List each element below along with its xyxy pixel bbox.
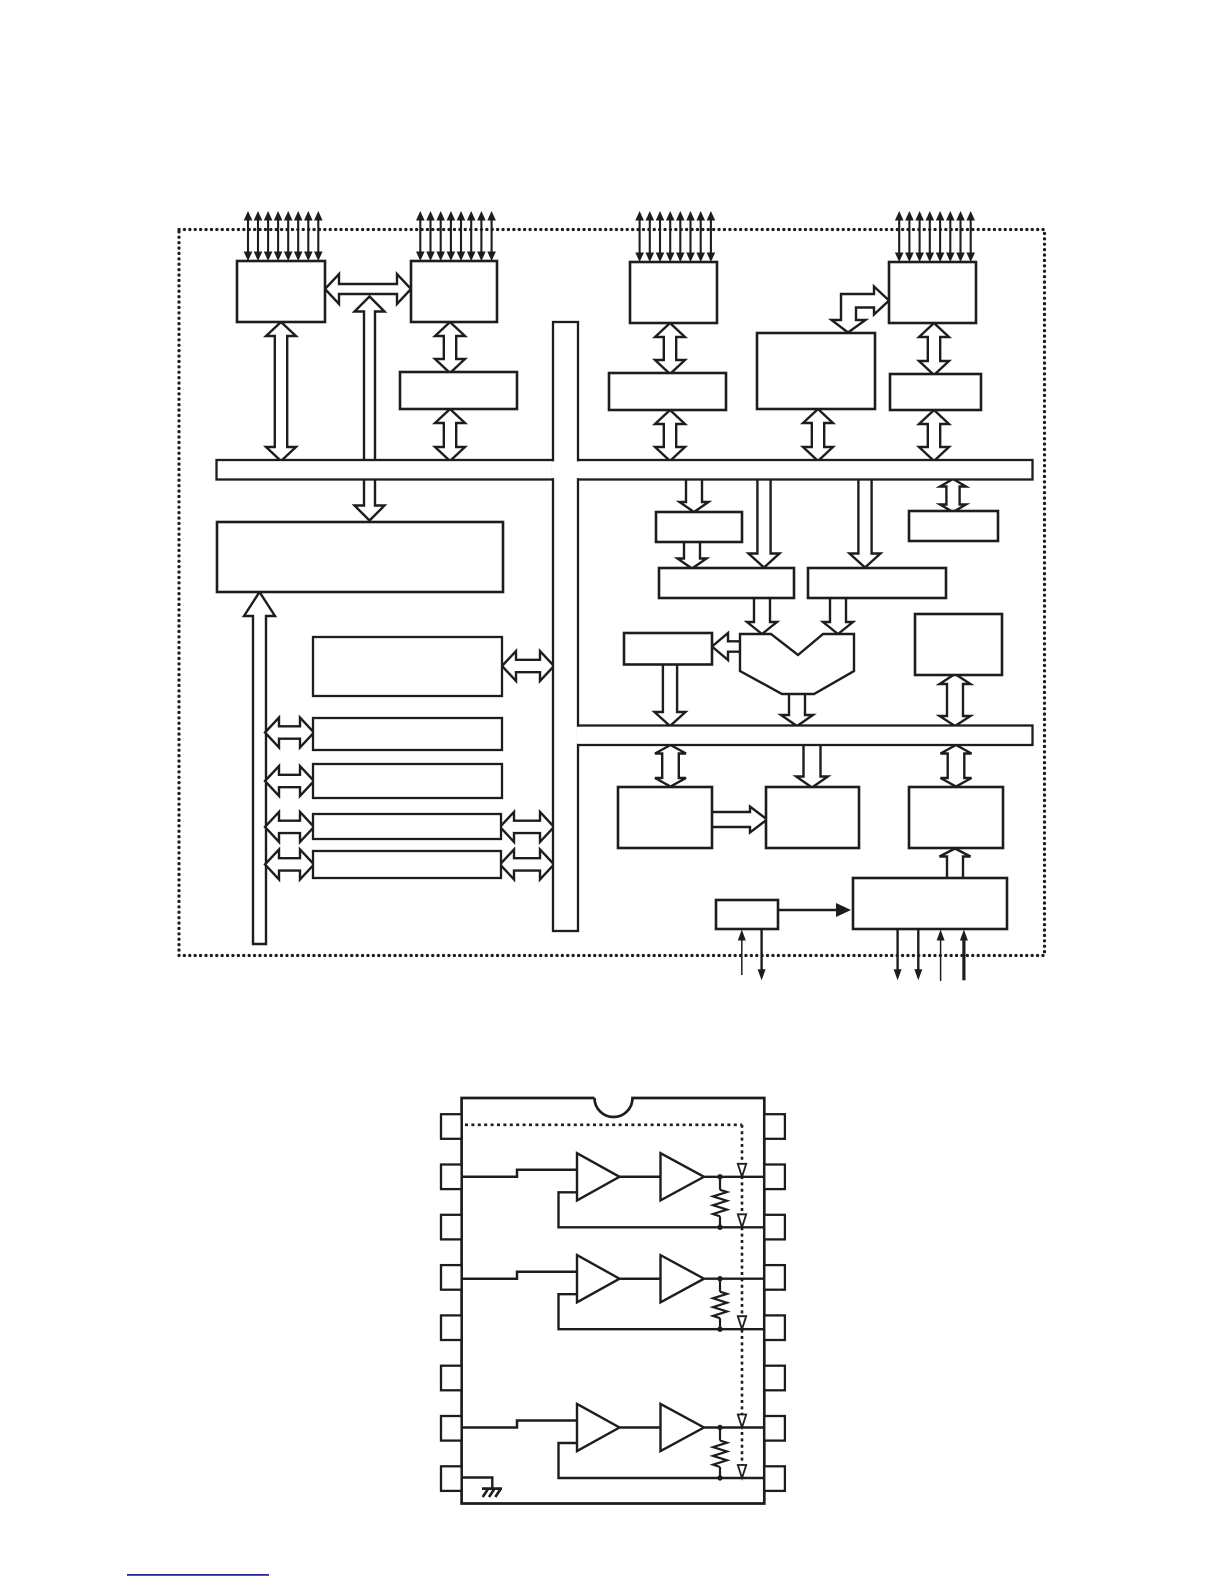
arrow R1 to bar — [502, 651, 554, 681]
arrow E to bus1 — [803, 409, 833, 461]
IC right pins 9-16 — [764, 1114, 785, 1491]
register R2 — [313, 718, 502, 750]
long arrow bus1 to H — [850, 470, 881, 568]
arrow L to M — [710, 807, 767, 833]
block P — [716, 900, 778, 929]
thin arrow out of O 1 — [894, 930, 902, 981]
arrow G to ALU — [747, 596, 777, 634]
block M — [766, 787, 859, 848]
block L — [618, 787, 712, 848]
arrow C2 to bus1 — [655, 410, 685, 461]
register R5 — [313, 851, 501, 878]
arrow bus2 to M — [796, 735, 828, 788]
block F — [656, 512, 742, 542]
ALU — [740, 634, 854, 694]
thin arrow into O 2 — [960, 930, 968, 981]
register R3 — [313, 764, 502, 798]
register B2 — [400, 372, 517, 409]
block G — [659, 568, 794, 598]
arrow bus2 to L — [655, 745, 686, 787]
amplifier channel 2 — [462, 1255, 765, 1332]
data bus 1 — [217, 460, 1033, 480]
data bus 2 — [578, 726, 1033, 746]
footer blue rule — [127, 1574, 269, 1576]
pin array above port block B — [416, 211, 496, 261]
instruction decoder block — [217, 522, 503, 592]
arrow J to bus2 — [655, 663, 686, 726]
arrow R5 to bar — [500, 849, 554, 879]
arrow B-B2 — [435, 322, 465, 373]
thin arrow out of P — [758, 930, 766, 981]
pin array above port block D — [895, 211, 975, 262]
arrow ALU to J — [712, 633, 742, 660]
IC left pins 1-8 — [441, 1114, 462, 1491]
arrow R4 left — [265, 812, 314, 842]
arrow P to O — [778, 903, 851, 917]
ground symbol — [462, 1478, 502, 1498]
arrow bus1 to I — [940, 479, 966, 512]
arrow D2 to bus1 — [919, 410, 949, 461]
arrow A to bus1 — [266, 322, 296, 461]
arrow bus2 to N — [941, 745, 972, 787]
port block C — [630, 262, 717, 323]
block O — [853, 878, 1007, 929]
block H — [808, 568, 946, 598]
amplifier channel 3 — [462, 1404, 765, 1481]
register R4 — [313, 814, 501, 839]
arrow K to bus2 — [940, 674, 971, 726]
block I — [909, 511, 998, 541]
register D2 — [890, 374, 981, 410]
bus1-bar junction opening — [552, 461, 580, 478]
block J — [624, 633, 712, 665]
bent arrow E-D — [832, 287, 890, 333]
arrow bus1 to F — [680, 470, 709, 512]
port block D — [889, 262, 976, 323]
internal bus vertical bar — [553, 322, 578, 931]
block K — [915, 614, 1002, 675]
dotted system boundary — [179, 230, 1045, 956]
port block A — [237, 261, 325, 322]
arrow A-B — [325, 274, 411, 304]
arrow ALU to bus2 — [781, 692, 813, 726]
port block B — [411, 261, 497, 322]
thin arrow into O 1 — [937, 930, 945, 982]
arrow B2 to bus1 — [435, 409, 465, 461]
arrow R2 left — [265, 718, 314, 748]
bus2-bar junction opening — [577, 727, 580, 744]
pin array above port block C — [635, 211, 715, 262]
pin array above port block A — [244, 211, 323, 261]
arrow O to N — [940, 849, 971, 881]
arrow bus-link to decoder — [355, 297, 385, 521]
block N — [909, 787, 1003, 848]
arrow C-C2 — [655, 323, 685, 374]
arrow F to G — [678, 540, 707, 569]
amplifier channel 1 — [462, 1153, 765, 1230]
arrow R5 left — [265, 849, 314, 879]
long up arrow to decoder — [244, 592, 275, 944]
arrow H to ALU — [823, 596, 853, 634]
arrow R4 to bar — [500, 812, 554, 842]
IC package body — [462, 1098, 765, 1504]
long arrow bus1 to G — [749, 470, 780, 568]
arrow D-D2 — [919, 323, 949, 375]
block E — [757, 333, 875, 409]
thin arrow into P — [738, 930, 746, 976]
arrow R3 left — [265, 766, 314, 796]
register R1 — [313, 637, 502, 696]
register C2 — [609, 373, 726, 410]
thin arrow out of O 2 — [914, 930, 922, 981]
internal dotted bias line — [465, 1125, 742, 1478]
